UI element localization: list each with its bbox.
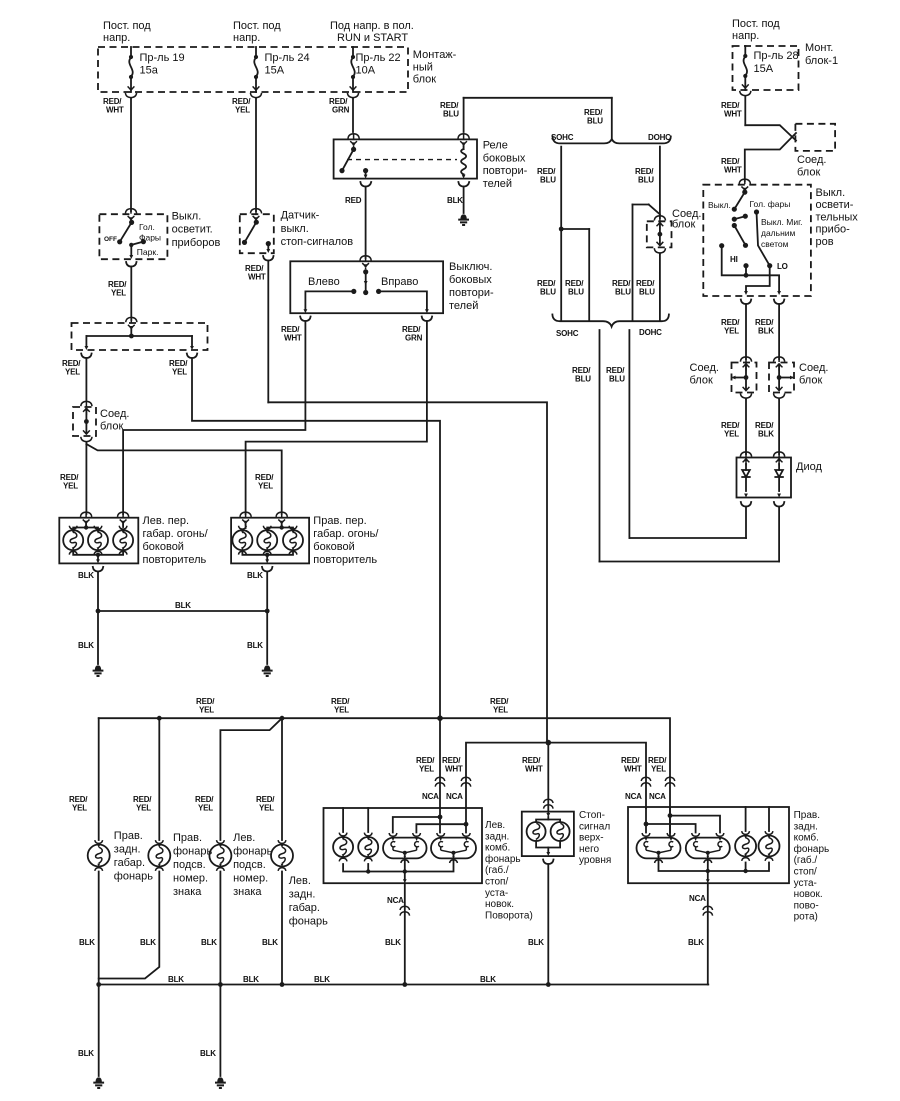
- wire RED/BLU DOHC to brace: [659, 254, 661, 320]
- svg-text:Лев.: Лев.: [233, 832, 255, 844]
- label: Стоп-сигнал верхнего уровня: [579, 810, 611, 866]
- svg-text:Выкл.: Выкл.: [172, 211, 202, 223]
- inline connector left tail exit: [400, 906, 410, 915]
- bulb high stop 2: [551, 822, 570, 841]
- label: Выкл. осветительных приборов: [816, 187, 859, 248]
- label: Датчик-выкл. стоп-сигналов: [281, 210, 354, 248]
- wire BLK right plate lamp down: [99, 872, 160, 979]
- fuse F22 (Пр-ль 22 10А): [351, 47, 355, 92]
- svg-text:Пр-ль 28: Пр-ль 28: [754, 50, 799, 62]
- label: Соед. блок: [100, 408, 129, 432]
- svg-text:BLK: BLK: [200, 1049, 216, 1058]
- svg-text:WHT: WHT: [106, 105, 124, 114]
- svg-text:Прав.: Прав.: [173, 832, 202, 844]
- wire to left rear lamp: [281, 718, 283, 840]
- wire RED/GRN fuse22 to relay: [352, 99, 354, 132]
- conn block R node: [777, 366, 794, 389]
- bulb high stop 1: [527, 822, 546, 841]
- wire BLK high stop to rail: [547, 864, 549, 985]
- relay switch pole and arm: [339, 147, 356, 173]
- svg-text:Соед.: Соед.: [690, 362, 719, 374]
- svg-text:YEL: YEL: [651, 764, 666, 773]
- high stop feed tee: [536, 812, 560, 822]
- svg-text:уста-: уста-: [794, 878, 817, 889]
- svg-text:BLK: BLK: [528, 938, 544, 947]
- svg-text:ров: ров: [816, 236, 834, 248]
- bulb: Прав. фонарь подсв. номер. знака: [148, 840, 170, 871]
- svg-text:YEL: YEL: [235, 105, 250, 114]
- value label: Пр-ль 28 15А: [754, 50, 799, 75]
- svg-text:YEL: YEL: [724, 326, 739, 335]
- svg-text:RUN и START: RUN и START: [337, 32, 408, 44]
- ground right front: [262, 665, 273, 676]
- svg-text:BLK: BLK: [175, 601, 191, 610]
- wire label RED/YEL: [195, 795, 214, 812]
- svg-text:осветит.: осветит.: [172, 224, 213, 236]
- svg-text:NCA: NCA: [625, 792, 642, 801]
- wire RED/YEL splitter right to tail rail: [192, 358, 440, 718]
- wire BLK left front lamp to ground rail: [97, 571, 99, 664]
- svg-text:уста-: уста-: [485, 888, 508, 899]
- svg-text:выкл.: выкл.: [281, 223, 309, 235]
- connector entering right front lamp 1: [240, 512, 251, 526]
- bulb left tail single 1: [333, 808, 353, 861]
- wire RED/YEL rail to right tail box: [669, 777, 671, 837]
- junction bottom rail 3: [280, 982, 285, 987]
- svg-text:дальним: дальним: [761, 228, 796, 238]
- svg-text:уровня: уровня: [579, 855, 611, 866]
- wire label BLK: [688, 938, 704, 947]
- LO wire to exit: [744, 266, 770, 295]
- right tail bus A (RED/WHT): [644, 808, 696, 833]
- right front lamp unit box: [231, 518, 309, 564]
- wire label BLK: [247, 641, 263, 650]
- wire RED/WHT fuse28 down: [744, 97, 746, 125]
- svg-text:Лев.: Лев.: [289, 875, 311, 887]
- svg-text:напр.: напр.: [732, 30, 759, 42]
- svg-text:блок-1: блок-1: [805, 55, 838, 67]
- ground for relay coil: [458, 214, 469, 225]
- svg-text:WHT: WHT: [248, 272, 266, 281]
- wire label RED/GRN: [329, 97, 350, 114]
- wire RED/YEL junction to left front lamp: [85, 443, 87, 514]
- svg-text:NCA: NCA: [422, 792, 439, 801]
- svg-text:YEL: YEL: [334, 705, 349, 714]
- svg-text:новок.: новок.: [794, 889, 823, 900]
- svg-text:YEL: YEL: [111, 288, 126, 297]
- connector leaving splitter right: [187, 354, 197, 359]
- connector at fuse block exit F19: [125, 86, 136, 99]
- svg-text:SOHC: SOHC: [556, 329, 579, 338]
- wire label BLK (rail): [175, 601, 191, 610]
- wire label RED/YEL: [196, 697, 215, 714]
- connector leaving relay (output): [360, 182, 371, 187]
- inline connector (high stop): [544, 799, 554, 808]
- wire label RED/YEL: [256, 795, 275, 812]
- wire label BLK (rail): [243, 975, 259, 984]
- svg-text:повторитель: повторитель: [313, 554, 377, 566]
- wire label RED/BLU: [584, 108, 603, 125]
- svg-text:знака: знака: [233, 886, 262, 898]
- light switch arm to OFF: [117, 222, 132, 244]
- connector entering dimmer switch: [739, 179, 750, 193]
- svg-text:BLK: BLK: [201, 938, 217, 947]
- label: Реле боковых повторителей: [483, 140, 528, 190]
- svg-text:Диод: Диод: [796, 461, 822, 473]
- svg-text:стоп/: стоп/: [485, 877, 508, 888]
- junction SOHC split: [559, 227, 589, 321]
- conn block L node: [732, 366, 749, 389]
- wire label RED/BLU: [572, 366, 591, 383]
- svg-text:(габ./: (габ./: [485, 864, 509, 876]
- wire RED/BLK dimmer to conn block: [778, 304, 780, 359]
- stop switch output contact: [266, 241, 271, 253]
- wire RED/BLU DOHC branch: [659, 147, 661, 218]
- connector leaving conn block R: [774, 387, 785, 400]
- label: Выключ. боковых повторителей: [449, 261, 494, 312]
- svg-text:Датчик-: Датчик-: [281, 210, 320, 222]
- svg-text:WHT: WHT: [724, 109, 742, 118]
- right tail exit: [706, 871, 710, 883]
- svg-text:GRN: GRN: [405, 333, 423, 342]
- turn switch (Выключ. боковых повторителей) box: [290, 261, 443, 313]
- connector entering relay (switch side): [348, 134, 359, 148]
- svg-text:номер.: номер.: [233, 873, 268, 885]
- wire label RED/YEL: [60, 473, 79, 490]
- connector entering junction block left: [81, 401, 92, 415]
- label: Соед. блок: [797, 154, 826, 179]
- svg-text:Влево: Влево: [308, 276, 340, 288]
- wire Вправо output to right front lamp: [246, 321, 427, 514]
- svg-text:рота): рота): [794, 912, 818, 923]
- label: Прав. задн. комб. фонарь (габ./стоп/установок. поворота): [794, 810, 830, 923]
- svg-text:GRN: GRN: [332, 105, 350, 114]
- wire RED/WHT stop branch across: [268, 402, 547, 742]
- svg-text:Гол. фары: Гол. фары: [750, 199, 791, 209]
- svg-text:Стоп-: Стоп-: [579, 810, 605, 821]
- wire label RED/WHT: [245, 264, 266, 281]
- connector leaving diode L: [741, 502, 751, 507]
- svg-text:15а: 15а: [140, 64, 159, 76]
- svg-text:NCA: NCA: [689, 894, 706, 903]
- wire BLK left tail to rail: [404, 883, 406, 984]
- junction stop wire: [546, 740, 552, 746]
- svg-text:Соед.: Соед.: [797, 154, 826, 166]
- position label Вправо: [381, 276, 418, 288]
- connector leaving stop-lamp switch: [263, 256, 273, 261]
- relay output contact: [363, 168, 368, 179]
- connector leaving junction block (DOHC): [654, 242, 665, 255]
- connector entering turn switch: [360, 256, 371, 270]
- connector leaving splitter left: [81, 354, 91, 359]
- brace SOHC/DOHC bottom: [552, 315, 669, 327]
- svg-text:блок: блок: [799, 374, 822, 386]
- connector leaving turn switch left: [300, 317, 310, 322]
- svg-text:YEL: YEL: [259, 803, 274, 812]
- wire label RED/WHT: [621, 756, 642, 773]
- wire label RED/BLU: [635, 167, 654, 184]
- svg-text:боковой: боковой: [313, 541, 354, 553]
- svg-text:Соед.: Соед.: [100, 408, 129, 420]
- turn switch pole: [363, 269, 368, 295]
- left tail bus A (RED/YEL): [393, 815, 443, 833]
- svg-text:NCA: NCA: [649, 792, 666, 801]
- svg-text:Монтаж-: Монтаж-: [413, 49, 457, 61]
- junction bottom rail 4: [402, 982, 407, 987]
- wire label BLK: [78, 1049, 94, 1058]
- svg-text:Пост. под: Пост. под: [233, 20, 281, 32]
- svg-text:Монт.: Монт.: [805, 42, 833, 54]
- svg-text:ный: ный: [413, 61, 433, 73]
- svg-text:блок: блок: [672, 218, 695, 230]
- svg-text:фонарь: фонарь: [233, 846, 272, 858]
- svg-text:WHT: WHT: [724, 165, 742, 174]
- label: Соед. блок: [690, 362, 719, 386]
- svg-text:BLK: BLK: [447, 196, 463, 205]
- wire label RED/YEL: [721, 318, 740, 335]
- wire label RED/YEL: [255, 473, 274, 490]
- wire label RED/YEL: [108, 280, 127, 297]
- stop switch pole and arm: [242, 220, 259, 245]
- HI contact: [743, 263, 748, 275]
- junction on rail (main feed): [437, 715, 443, 721]
- svg-text:габар.: габар.: [114, 857, 145, 869]
- label: Лев. фонарь подсв. номер. знака: [233, 832, 272, 898]
- wire label RED/BLU: [440, 101, 459, 118]
- wire Влево output to left front lamp: [123, 321, 305, 514]
- wire label RED/BLU: [606, 366, 625, 383]
- svg-text:блок: блок: [797, 167, 820, 179]
- wire label RED/GRN: [402, 325, 423, 342]
- svg-text:прибо-: прибо-: [816, 224, 851, 236]
- svg-text:BLK: BLK: [243, 975, 259, 984]
- fuse F19 (Пр-ль 19 15а): [129, 47, 133, 92]
- svg-text:YEL: YEL: [198, 803, 213, 812]
- bulb R1: [232, 526, 252, 555]
- position label Выкл.: [708, 200, 731, 210]
- label: Монт. блок-1: [805, 42, 838, 67]
- svg-text:BLK: BLK: [480, 975, 496, 984]
- wire RED/YEL conn block to diode: [745, 400, 747, 455]
- svg-text:HI: HI: [730, 255, 738, 264]
- left tail exit: [403, 872, 407, 884]
- svg-text:задн.: задн.: [794, 821, 818, 832]
- wire RED/BLU SOHC branch: [560, 147, 562, 321]
- fuse block-1 (Монт. блок-1) dashed box: [733, 46, 799, 90]
- wire RED/YEL fuse24 to stop-lamp switch: [255, 99, 257, 211]
- svg-text:Прав. пер.: Прав. пер.: [313, 515, 366, 527]
- svg-text:напр.: напр.: [103, 32, 130, 44]
- svg-text:Выкл.: Выкл.: [708, 200, 731, 210]
- svg-text:BLU: BLU: [639, 287, 655, 296]
- svg-text:Прав.: Прав.: [794, 810, 820, 821]
- connector entering junction block (DOHC): [654, 216, 665, 230]
- svg-text:него: него: [579, 844, 600, 855]
- wire label RED/WHT: [721, 157, 742, 174]
- position label OFF: [104, 236, 117, 243]
- svg-text:YEL: YEL: [724, 429, 739, 438]
- svg-text:фонарь: фонарь: [114, 871, 153, 883]
- net label: Пост. под напр. (fuse 28): [732, 18, 780, 42]
- tag NCA: [689, 894, 706, 903]
- wire label RED/YEL: [232, 97, 251, 114]
- svg-text:WHT: WHT: [284, 333, 302, 342]
- bulb R3: [283, 526, 303, 555]
- svg-text:YEL: YEL: [419, 764, 434, 773]
- svg-text:WHT: WHT: [624, 764, 642, 773]
- svg-text:блок: блок: [413, 74, 436, 86]
- wire label BLK (rail): [314, 975, 330, 984]
- connector leaving light switch: [126, 262, 136, 267]
- svg-text:задн.: задн.: [289, 889, 316, 901]
- tag NCA: [446, 792, 463, 801]
- tag NCA: [387, 896, 404, 905]
- svg-text:задн.: задн.: [114, 844, 141, 856]
- connector entering relay (coil side): [458, 134, 469, 148]
- connector leaving right front lamp: [262, 567, 272, 572]
- bulb right tail oval 2: [686, 833, 730, 863]
- wire label RED/YEL: [169, 359, 188, 376]
- svg-text:пово-: пово-: [794, 900, 819, 911]
- label: Выкл. осветит. приборов: [172, 211, 221, 249]
- splitter internal tee: [85, 330, 194, 351]
- tag DOHC: [648, 133, 671, 142]
- connector entering right front lamp 2: [276, 512, 287, 526]
- bulb right tail oval 1: [637, 833, 681, 863]
- svg-text:освети-: освети-: [816, 199, 854, 211]
- label: Прав. фонарь подсв. номер. знака: [173, 832, 212, 898]
- bulb left tail oval 2: [431, 833, 476, 863]
- position label Парк.: [137, 247, 159, 257]
- svg-text:Выкл. Миг.: Выкл. Миг.: [761, 217, 803, 227]
- diode exit arrows: [744, 494, 781, 498]
- wire BLK right rear lamp down: [98, 872, 100, 985]
- svg-text:светом: светом: [761, 239, 789, 249]
- svg-text:габар.: габар.: [289, 902, 320, 914]
- svg-text:Лев.: Лев.: [485, 820, 505, 831]
- connector leaving relay (coil gnd): [458, 182, 469, 187]
- left tail ground bus: [343, 859, 453, 874]
- connector leaving diode R: [774, 502, 784, 507]
- tag NCA: [422, 792, 439, 801]
- wire label RED/YEL: [133, 795, 152, 812]
- connector entering splitter: [126, 317, 137, 331]
- connector entering light switch: [125, 209, 136, 223]
- svg-text:BLK: BLK: [262, 938, 278, 947]
- svg-text:приборов: приборов: [172, 237, 221, 249]
- position label HI: [730, 255, 738, 264]
- inline connector NCA (left tail 1): [435, 777, 445, 786]
- svg-text:BLK: BLK: [385, 938, 401, 947]
- svg-text:блок: блок: [690, 374, 713, 386]
- wire label RED/YEL: [331, 697, 350, 714]
- brace SOHC/DOHC top: [553, 137, 671, 144]
- svg-text:задн.: задн.: [485, 831, 509, 842]
- label: Прав. пер. габар. огонь/боковой повторитель: [313, 515, 379, 566]
- wire to left plate lamp: [220, 718, 282, 840]
- turn switch left contact to exit: [304, 289, 357, 313]
- wire RED/BLU relay coil feed: [464, 98, 612, 138]
- inline connector NCA (right tail 1): [641, 777, 651, 786]
- svg-text:BLK: BLK: [247, 641, 263, 650]
- svg-text:BLU: BLU: [587, 116, 603, 125]
- svg-text:габар. огонь/: габар. огонь/: [313, 528, 379, 540]
- wire label RED/YEL: [648, 756, 667, 773]
- wire RED/WHT stop switch down: [267, 261, 269, 403]
- svg-text:10А: 10А: [356, 64, 376, 76]
- dimmer switch (Выкл. осветительных приборов) dashed box: [703, 185, 811, 296]
- splitter dashed box: [72, 323, 208, 350]
- label: Лев. задн. габар. фонарь: [289, 875, 328, 928]
- svg-text:сигнал: сигнал: [579, 821, 610, 832]
- wire label RED/BLU: [612, 279, 631, 296]
- svg-text:BLU: BLU: [638, 175, 654, 184]
- label: Прав. задн. габар. фонарь: [114, 830, 153, 883]
- svg-text:фонарь: фонарь: [289, 916, 328, 928]
- dimmer arm to Выкл. contact: [732, 192, 745, 212]
- svg-text:боковых: боковых: [483, 152, 526, 164]
- ground left front: [93, 665, 104, 676]
- dimmer pole: [742, 190, 747, 195]
- wire RED/WHT stop to high stop lamp: [547, 743, 549, 812]
- wire RED/WHT branch rail: [466, 743, 646, 808]
- connector at fuse block-1 exit: [740, 84, 751, 97]
- right front lamp ground bus: [242, 553, 293, 564]
- svg-text:YEL: YEL: [493, 705, 508, 714]
- label: Монтаж-ный блок: [413, 49, 457, 86]
- svg-text:габар. огонь/: габар. огонь/: [143, 528, 209, 540]
- svg-text:YEL: YEL: [172, 367, 187, 376]
- left contact and HI rail: [719, 243, 781, 295]
- value label: Пр-ль 24 15А: [265, 52, 310, 76]
- svg-text:знака: знака: [173, 886, 202, 898]
- connector entering left front lamp 1: [81, 512, 92, 526]
- junction bottom rail 1: [96, 982, 101, 987]
- tag SOHC: [551, 133, 574, 142]
- connector entering left front lamp 2: [118, 512, 129, 526]
- svg-text:боковых: боковых: [449, 274, 492, 286]
- connector at fuse block exit F24: [250, 86, 261, 99]
- bulb right tail single 1: [735, 807, 756, 861]
- bulb left tail oval 1: [383, 833, 427, 863]
- high stop lamp box (Стоп-сигнал верхнего уровня): [522, 812, 574, 857]
- position label Гол. Фары: [139, 222, 161, 242]
- label: Соед. блок: [672, 208, 701, 230]
- svg-text:15А: 15А: [754, 63, 774, 75]
- svg-text:стоп-сигналов: стоп-сигналов: [281, 236, 354, 248]
- svg-text:YEL: YEL: [199, 705, 214, 714]
- svg-text:Пр-ль 22: Пр-ль 22: [356, 52, 401, 64]
- right front lamp internal bus: [246, 524, 293, 531]
- wire BLK right front lamp to ground rail: [266, 571, 268, 664]
- svg-text:OFF: OFF: [104, 236, 117, 243]
- ground bottom left: [93, 1077, 104, 1088]
- wire BLK left rear lamp down: [281, 872, 283, 985]
- connector at fuse block exit F22: [347, 86, 358, 99]
- svg-text:телей: телей: [483, 178, 512, 190]
- svg-text:BLK: BLK: [688, 938, 704, 947]
- side repeater relay (Реле боковых повторителей) box: [334, 139, 477, 178]
- svg-text:комб.: комб.: [794, 832, 819, 844]
- value label: Пр-ль 22 10А: [356, 52, 401, 76]
- label: Лев. задн. комб. фонарь (габ./стоп/устано­вок. Поворота): [485, 820, 533, 921]
- wire label BLK (rail): [168, 975, 184, 984]
- svg-text:BLU: BLU: [540, 287, 556, 296]
- tag SOHC: [556, 329, 579, 338]
- svg-text:повтори-: повтори-: [483, 165, 528, 177]
- bulb: Прав. задн. габар. фонарь: [88, 840, 110, 871]
- wire label RED/WHT: [442, 756, 463, 773]
